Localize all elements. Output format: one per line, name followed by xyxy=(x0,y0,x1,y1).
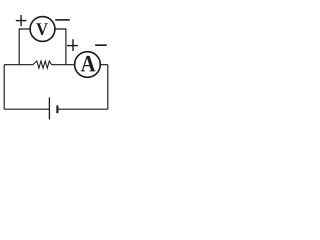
wire: bottom right (battery to right wall) xyxy=(57,108,107,110)
wire: bottom left (left wall to battery) xyxy=(4,108,49,110)
ammeter plus label xyxy=(67,39,78,51)
voltmeter minus label xyxy=(55,19,70,21)
voltmeter V1 circle xyxy=(30,17,55,42)
wire: left wall xyxy=(3,65,5,110)
resistor R xyxy=(33,61,52,68)
battery long plate (+) xyxy=(48,97,50,119)
wire: ammeter to right wall xyxy=(100,64,108,66)
ammeter minus label xyxy=(95,44,107,46)
background xyxy=(0,0,113,127)
wire: right wall xyxy=(107,65,109,110)
wire: resistor to ammeter xyxy=(52,64,75,66)
wire: main row left segment xyxy=(4,64,33,66)
battery short plate (-) xyxy=(56,105,58,113)
wire: voltmeter left lead + branch down to main row xyxy=(19,29,30,65)
ammeter A1 circle xyxy=(75,52,101,78)
wire: voltmeter right lead + branch down to main row xyxy=(55,29,66,65)
voltmeter label V xyxy=(36,23,47,35)
ammeter label A xyxy=(81,56,96,71)
voltmeter plus label xyxy=(16,15,27,26)
